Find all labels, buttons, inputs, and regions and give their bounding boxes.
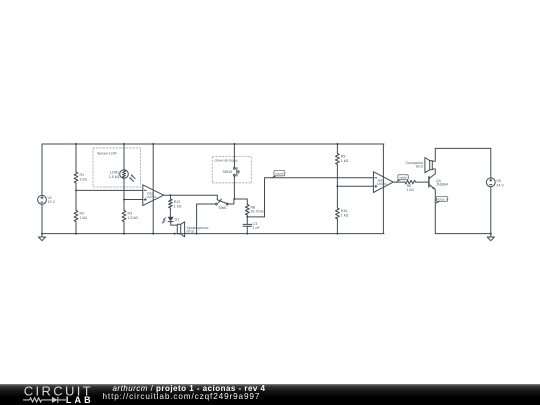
speaker SPK1 (177, 222, 184, 237)
wire C3 to rail (246, 226, 248, 233)
value label V1 12 V (48, 196, 56, 204)
wire right loop top rail (435, 147, 491, 149)
wire OA4 output (393, 181, 405, 183)
junction dot LDR top (123, 143, 125, 145)
op-amp OA2 (143, 185, 164, 206)
junction dot OA2 Vminus (152, 233, 154, 235)
resistor R6 (405, 180, 416, 184)
wire OA2 output (164, 194, 218, 196)
wire to op-amp plus input (124, 199, 143, 201)
value label R1 1 k (80, 173, 88, 181)
resistor R8 (245, 205, 249, 216)
wire LED to speaker (171, 222, 178, 226)
svg-text:Sensor LDR: Sensor LDR (97, 151, 117, 155)
svg-text:12 V: 12 V (48, 200, 56, 204)
wire top rail (42, 143, 384, 145)
ground (left) (38, 234, 45, 241)
resistor R1 (74, 172, 78, 183)
speaker SPK2 (425, 158, 432, 173)
svg-text:16.75 kΩ: 16.75 kΩ (251, 210, 266, 214)
resistor R2 (74, 211, 78, 222)
value label V5 24 V (496, 179, 504, 187)
value label Campainha 58 ohm (406, 161, 424, 169)
svg-text:24 V: 24 V (496, 183, 504, 187)
ground (right) (487, 234, 494, 241)
value label R2 1 k (80, 212, 88, 220)
value label Q3 2N3904 (436, 179, 448, 187)
value label C3 1 nF (253, 222, 261, 230)
junction dot divider mid (75, 189, 77, 191)
wire SW10 top (233, 144, 235, 168)
junction dot divider tap (336, 185, 338, 187)
svg-text:SW6: SW6 (219, 206, 227, 210)
junction dot SW10 top (233, 143, 235, 145)
value label R12 1 k (174, 200, 182, 208)
svg-text:2N3904: 2N3904 (436, 183, 448, 187)
wire speaker top feed (432, 148, 435, 161)
svg-text:1 kΩ: 1 kΩ (341, 159, 349, 163)
junction dot C3 bottom (246, 233, 248, 235)
junction dot R2 bottom (75, 233, 77, 235)
wire LDR branch (123, 144, 125, 234)
capacitor C3 (243, 224, 252, 226)
value label R8 16.75 k (251, 205, 266, 213)
junction dot R9 top (336, 143, 338, 145)
junction dot R3 bottom (123, 233, 125, 235)
junction dot R1 top (75, 143, 77, 145)
wire speaker to collector (432, 169, 435, 174)
wire right loop bottom rail (435, 233, 491, 235)
svg-text:SW10: SW10 (223, 170, 233, 174)
junction dot R10 bottom (336, 233, 338, 235)
node flag sound (271, 170, 285, 178)
value label OA2 LM741 (147, 191, 157, 199)
value label R10 1 k (341, 209, 349, 217)
value label Speakerphone (187, 226, 209, 233)
svg-text:1 kΩ: 1 kΩ (80, 178, 88, 182)
wire R8 to C3 (246, 215, 248, 224)
wire OA4 power rail vertical (382, 144, 384, 234)
wire node to R8 (234, 199, 247, 205)
svg-text:1.5 kΩ: 1.5 kΩ (109, 175, 120, 179)
svg-text:LM741: LM741 (147, 195, 157, 199)
svg-text:D1: D1 (175, 217, 180, 221)
junction dot (41, 233, 43, 235)
photoresistor LDR1 (120, 170, 135, 182)
wire divider to OA4 plus (337, 185, 373, 187)
value label R9 1 k (341, 155, 349, 163)
resistor R9 (336, 154, 340, 165)
wire emitter down (434, 189, 436, 233)
dashed box Sensor LDR (93, 148, 141, 187)
resistor R10 (336, 208, 340, 219)
junction dot OA2 output (169, 194, 171, 196)
voltage source V5 (486, 178, 495, 187)
wire SW6 right to node (228, 199, 234, 204)
wire SW6 left to ground rail (197, 204, 216, 234)
switch SW6 (216, 199, 229, 205)
svg-text:1 kΩ: 1 kΩ (80, 216, 88, 220)
junction dot OA2 Vplus (152, 143, 154, 145)
junction dot R8 bottom (246, 216, 248, 218)
svg-text:1 nF: 1 nF (253, 226, 261, 230)
junction dot touch node (233, 198, 235, 200)
junction dot plus tap (123, 199, 125, 201)
node flag saida (396, 175, 408, 182)
voltage source V1 (38, 195, 47, 204)
junction dot SW6 ground (196, 233, 198, 235)
svg-text:1.5 kΩ: 1.5 kΩ (128, 216, 139, 220)
svg-text:saida: saida (399, 176, 407, 180)
svg-text:1 kΩ: 1 kΩ (341, 214, 349, 218)
svg-text:NODE 4: NODE 4 (436, 197, 448, 201)
svg-text:(8 Ω): (8 Ω) (187, 230, 195, 234)
wire OA2 out down to switch (216, 195, 218, 200)
value label OA4 LM741 (377, 178, 387, 186)
resistor R12 (169, 199, 173, 208)
svg-text:LAB: LAB (66, 395, 94, 405)
wire R1 branch (75, 144, 77, 234)
svg-text:sound: sound (275, 172, 284, 176)
wire bottom rail (42, 233, 384, 235)
wire V1 branch left (41, 144, 43, 234)
wire OA2 power rail vertical (152, 144, 154, 234)
transistor Q3 (429, 174, 435, 189)
dashed box chave de toque (212, 157, 251, 183)
logo CircuitLab (0, 384, 110, 405)
resistor R3 (122, 211, 126, 222)
wire SW10 bottom (233, 176, 235, 199)
wire R12 branch (169, 195, 171, 217)
junction dot right ground (490, 233, 492, 235)
op-amp OA4 (373, 172, 393, 193)
wire to op-amp minus input (76, 189, 143, 191)
svg-text:1 kΩ: 1 kΩ (174, 205, 182, 209)
wire V2 branch (490, 148, 492, 233)
node flag NODE4 (435, 196, 448, 204)
svg-text:LM741: LM741 (377, 182, 387, 186)
wire R6 to base (415, 181, 428, 183)
value label R6 1 k (406, 184, 414, 192)
wire R9 R10 branch (336, 144, 338, 234)
junction dot speaker bottom (174, 233, 176, 235)
value label R3 1.5 k (128, 212, 139, 220)
wire touch node to OA4 minus (247, 178, 373, 217)
value label LDR1 1.5 k (109, 171, 120, 179)
pushbutton SW10 (234, 168, 239, 177)
svg-text:1 kΩ: 1 kΩ (406, 188, 414, 192)
LED D1 (162, 217, 173, 223)
svg-text:58 Ω: 58 Ω (416, 165, 424, 169)
